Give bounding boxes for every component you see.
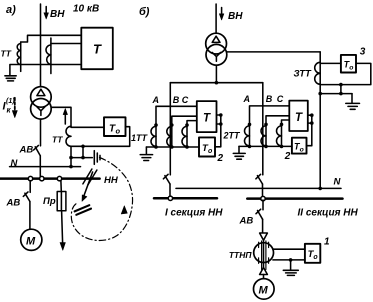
- relay То (1): [199, 137, 215, 156]
- svg-text:о: о: [208, 148, 213, 155]
- wire loop T1-To1: [215, 115, 221, 147]
- wire ground tie (a): [71, 146, 92, 157]
- wire neutral to ЗТТ: [227, 51, 320, 53]
- svg-text:АВ: АВ: [6, 198, 21, 209]
- 2ТТ coil line phase A: [249, 124, 251, 146]
- svg-text:1ТТ: 1ТТ: [131, 133, 149, 143]
- fuse branch Пр: [60, 181, 62, 192]
- wire transformer to splitter: [215, 65, 217, 83]
- relay Т (a): [81, 28, 113, 69]
- wire secondary loop (a): [71, 127, 130, 147]
- svg-text:Пр: Пр: [43, 196, 56, 207]
- busbar section II: [247, 197, 342, 200]
- bus N (б): [176, 187, 341, 189]
- feeder 1 (section I): [169, 83, 171, 175]
- current transformer ТТ left coil (a): [20, 42, 22, 71]
- tap wire C to relay T1: [187, 121, 197, 125]
- secondary common bus (1): [146, 146, 199, 148]
- breaker feeder 1: [165, 176, 170, 184]
- wire transformer neutral to CT: [51, 107, 71, 126]
- svg-text:ЗТТ: ЗТТ: [294, 69, 313, 80]
- svg-text:II секция НН: II секция НН: [298, 208, 359, 219]
- tap wire B to relay T2: [266, 116, 289, 125]
- svg-text:2: 2: [284, 151, 291, 162]
- svg-text:Т: Т: [203, 113, 211, 125]
- svg-text:N: N: [334, 177, 342, 188]
- tap wire A to relay T2: [250, 106, 290, 125]
- current transformer ЗТТ: [315, 62, 321, 84]
- breaker АВ (б motor): [258, 211, 263, 220]
- earth fault double slash: [75, 205, 91, 215]
- svg-text:о: о: [313, 254, 318, 261]
- bus N (a): [10, 166, 81, 168]
- cable funnel lower: [260, 268, 268, 275]
- wire to motor: [263, 275, 265, 279]
- 1ТТ coil line phase C: [186, 125, 188, 147]
- svg-text:о: о: [300, 146, 304, 153]
- power transformer (a): [31, 87, 52, 108]
- svg-text:о: о: [116, 127, 121, 136]
- ground (1ТТ): [145, 147, 147, 154]
- svg-text:N: N: [11, 158, 19, 169]
- secondary common bus (2): [239, 145, 292, 147]
- ground (3): [351, 94, 353, 103]
- svg-text:М: М: [259, 285, 269, 297]
- wires ТТНП to relay То: [273, 249, 305, 260]
- svg-text:I секция НН: I секция НН: [165, 208, 223, 219]
- junction dot on secondary: [81, 145, 85, 149]
- wire CT top to relay T: [21, 35, 82, 42]
- svg-text:Т: Т: [295, 112, 303, 124]
- svg-text:а): а): [6, 4, 16, 16]
- fault current loop dash-dot: [71, 158, 132, 241]
- feeder 2 (section II): [262, 83, 264, 175]
- motor М (a): [21, 229, 42, 250]
- 1ТТ coil line phase B: [171, 125, 173, 147]
- wire CT middle to relay T: [51, 43, 81, 45]
- arrow ВН direction (б): [221, 8, 223, 16]
- wire neutral down to N: [70, 146, 72, 166]
- relay То (1, ТТНП): [305, 244, 320, 263]
- tap wire C to relay T2: [282, 120, 290, 124]
- relay То (3): [341, 55, 356, 73]
- svg-text:Т: Т: [93, 42, 102, 57]
- svg-text:В: В: [173, 95, 180, 105]
- svg-text:А: А: [243, 94, 251, 104]
- motor М (б): [253, 279, 274, 300]
- relay То (2): [292, 138, 307, 154]
- relay Т (1): [197, 101, 217, 132]
- busbar НН (a): [0, 177, 100, 180]
- arrow current direction up: [64, 113, 66, 124]
- fault marker НН slashes: [83, 169, 97, 185]
- splitter bracket: [170, 82, 262, 84]
- svg-text:С: С: [182, 95, 189, 105]
- svg-text:2ТТ: 2ТТ: [223, 131, 242, 141]
- wire loop T2-To2: [307, 115, 312, 146]
- svg-text:АВ: АВ: [239, 216, 254, 227]
- wire ЗТТ to relay То: [320, 62, 341, 64]
- svg-text:к: к: [7, 106, 12, 115]
- arrow Iк down (dashed): [14, 98, 16, 112]
- tap wire A to relay T1: [156, 106, 197, 125]
- wire CT to relay То (a): [71, 126, 104, 128]
- current transformer ТТ right coil (a): [50, 38, 52, 74]
- breaker АВ motor branch (a): [29, 181, 31, 193]
- current transformer ТТ neutral (a): [66, 126, 71, 146]
- wire feeder HV (б): [215, 4, 217, 33]
- svg-text:о: о: [349, 64, 353, 71]
- svg-text:б): б): [139, 6, 150, 18]
- wire ground tie (3): [320, 85, 352, 94]
- relay Т (2): [289, 101, 308, 131]
- svg-text:2: 2: [217, 153, 224, 164]
- zero-sequence CT ТТНП toroid: [254, 243, 274, 263]
- svg-text:ВН: ВН: [50, 9, 65, 20]
- svg-text:А: А: [152, 95, 160, 105]
- svg-text:(1): (1): [6, 98, 15, 105]
- wire secondary loop (3): [320, 63, 371, 84]
- relay То (a): [104, 117, 126, 136]
- fault arrow to earth: [84, 172, 93, 197]
- ground (ТТНП secondary): [290, 260, 292, 270]
- svg-text:ВН: ВН: [228, 11, 243, 22]
- svg-text:ТТ: ТТ: [1, 49, 12, 59]
- busbar section I: [154, 197, 217, 200]
- motor branch (б): wire from bus: [262, 200, 264, 210]
- cable through toroid: [263, 240, 265, 267]
- svg-text:3: 3: [360, 47, 366, 58]
- svg-text:10 кВ: 10 кВ: [73, 4, 99, 15]
- arrow ВН direction (a): [45, 7, 47, 15]
- breaker АВ feeder (a): [40, 119, 42, 146]
- svg-text:М: М: [26, 236, 36, 248]
- svg-text:1: 1: [324, 237, 330, 248]
- breaker feeder 2: [257, 176, 262, 184]
- cable funnel upper: [260, 233, 268, 240]
- 2ТТ coil line phase B: [265, 124, 267, 146]
- power transformer (б): [206, 33, 227, 54]
- 2ТТ coil line phase C: [281, 124, 283, 146]
- tap wire B to relay T1: [172, 116, 197, 125]
- 1ТТ coil line phase A: [155, 125, 157, 147]
- svg-text:ТТ: ТТ: [52, 135, 63, 145]
- svg-text:ТТНП: ТТНП: [229, 250, 253, 260]
- svg-text:В: В: [266, 94, 273, 104]
- arrowhead on loop: [121, 206, 127, 214]
- ground (a secondary, sideways): [94, 151, 100, 165]
- wire neutral vertical through ЗТТ to N: [319, 52, 321, 189]
- svg-text:АВ: АВ: [19, 145, 34, 156]
- wire feeder HV (a): [40, 4, 42, 87]
- wire CT bottom common to relay T: [21, 64, 82, 66]
- svg-text:С: С: [277, 94, 284, 104]
- ground (2ТТ): [238, 146, 240, 152]
- svg-text:НН: НН: [104, 175, 119, 186]
- ground (HV CT secondary): [10, 65, 21, 75]
